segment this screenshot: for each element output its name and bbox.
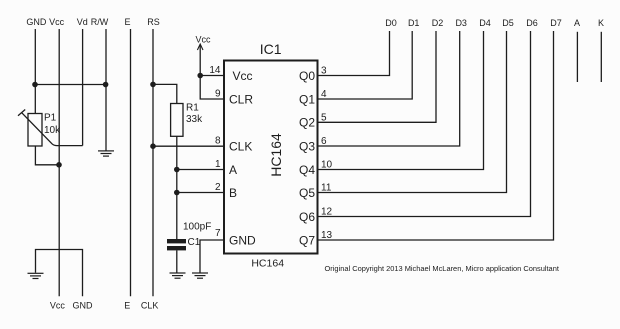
svg-text:D5: D5 [502,18,514,28]
wire Q1 to D1 [318,31,413,99]
svg-text:K: K [598,18,604,28]
wire RS to CLK pin 8 [153,145,224,147]
wire GND to R/W [35,84,106,86]
svg-text:Q5: Q5 [299,186,315,200]
wire ground to GND bottom [36,250,83,297]
wire RS to R1 top [153,84,177,103]
wire RS rail vertical [152,29,154,296]
svg-text:P1: P1 [44,113,57,124]
node Vcc/pin14 junction [197,73,203,79]
wire Q4 to D4 [318,31,484,170]
wire Q7 to D7 [318,31,554,240]
wire pot wiper to Vd [22,113,83,146]
svg-text:D0: D0 [385,18,397,28]
svg-text:Vcc: Vcc [195,35,211,45]
svg-text:CLK: CLK [229,139,252,153]
svg-text:HC164: HC164 [268,133,284,177]
svg-text:4: 4 [321,89,327,100]
svg-text:Q4: Q4 [299,163,315,177]
svg-text:100pF: 100pF [183,222,211,233]
svg-text:A: A [574,18,580,28]
svg-text:10: 10 [321,160,333,171]
svg-text:Q3: Q3 [299,139,315,153]
wire C1 bottom to ground [176,250,178,272]
svg-text:Original Copyright 2013 Micha: Original Copyright 2013 Michael McLaren,… [325,264,560,273]
svg-text:E: E [124,301,130,311]
node GND/R-W junction [32,82,38,88]
svg-text:5: 5 [321,112,327,123]
svg-text:Q6: Q6 [299,210,315,224]
ground (R/W) [98,151,114,156]
node B junction [174,190,180,196]
node R/W rail junction [103,82,109,88]
svg-text:GND: GND [229,233,256,247]
wire R1 bottom to C1 [176,136,178,239]
node Vcc/pot junction [56,162,62,168]
svg-text:Vcc: Vcc [49,17,65,27]
svg-text:Q7: Q7 [299,233,315,247]
svg-text:C1: C1 [188,237,201,248]
svg-text:D6: D6 [526,18,538,28]
svg-text:R1: R1 [186,103,199,114]
svg-text:D2: D2 [432,18,444,28]
wire pin 7 GND to ground [200,240,224,273]
svg-text:D4: D4 [479,18,491,28]
svg-text:Vd: Vd [77,17,88,27]
wire Q6 to D6 [318,31,531,217]
svg-text:7: 7 [215,228,221,239]
node RS/R1 junction [150,82,156,88]
resistor R1 body [171,104,183,137]
svg-text:GND: GND [73,301,94,311]
wire E rail vertical [130,29,132,296]
svg-text:Vcc: Vcc [50,301,66,311]
svg-text:D3: D3 [455,18,467,28]
Q output wires and D rails [318,31,602,240]
svg-text:8: 8 [215,136,221,147]
wire Q3 to D3 [318,31,460,146]
op-amp IC1 box (HC164 shift register) [224,61,318,254]
wire node to pin 1 A [177,169,224,171]
svg-text:3: 3 [321,66,327,77]
svg-text:B: B [229,186,237,200]
wire GND rail vertical [34,29,36,114]
wire K lead [600,32,602,82]
wire R/W rail vertical [105,29,107,151]
svg-text:1: 1 [215,159,221,170]
wire Vd rail vertical [82,29,84,146]
svg-text:Q1: Q1 [299,92,315,106]
svg-text:GND: GND [26,17,47,27]
svg-text:CLR: CLR [229,92,253,106]
ground (bottom left) [28,273,44,278]
capacitor C1 plates [167,239,186,243]
wire Vcc rail vertical [58,29,60,296]
svg-text:Q0: Q0 [299,69,315,83]
wire pin 14 stub [200,75,224,77]
svg-text:HC164: HC164 [251,258,284,270]
svg-text:Q2: Q2 [299,116,315,130]
potentiometer P1 body [28,114,42,147]
svg-text:14: 14 [209,65,221,76]
svg-text:Vcc: Vcc [233,69,253,83]
wire Q0 to D0 [318,31,390,76]
svg-text:RS: RS [147,17,160,27]
svg-text:R/W: R/W [91,17,109,27]
svg-text:D7: D7 [550,18,562,28]
wire pot bottom to Vcc rail [35,146,59,165]
wire Q2 to D2 [318,31,437,122]
Vcc power symbol arrow [197,44,203,50]
svg-text:9: 9 [215,89,221,100]
wire node to pin 2 B [177,192,224,194]
ground (C1) [170,273,186,278]
ground (pin 7) [192,273,208,278]
svg-text:D1: D1 [408,18,420,28]
node A junction [174,167,180,173]
wire A lead [576,32,578,82]
wire Q5 to D5 [318,31,507,193]
svg-text:CLK: CLK [141,301,159,311]
svg-text:2: 2 [215,182,221,193]
svg-text:6: 6 [321,136,327,147]
svg-text:11: 11 [321,183,332,194]
svg-text:E: E [124,17,130,27]
svg-text:33k: 33k [186,114,203,125]
svg-text:A: A [229,163,237,177]
node RS/CLK junction [150,143,156,149]
svg-text:10k: 10k [44,125,61,136]
wire Vcc symbol to pin 14 and pin 9 CLR [200,45,224,99]
svg-text:13: 13 [321,230,333,241]
potentiometer P1 trimmer T-bar [18,110,25,116]
svg-text:12: 12 [321,207,333,218]
svg-text:IC1: IC1 [260,41,282,57]
